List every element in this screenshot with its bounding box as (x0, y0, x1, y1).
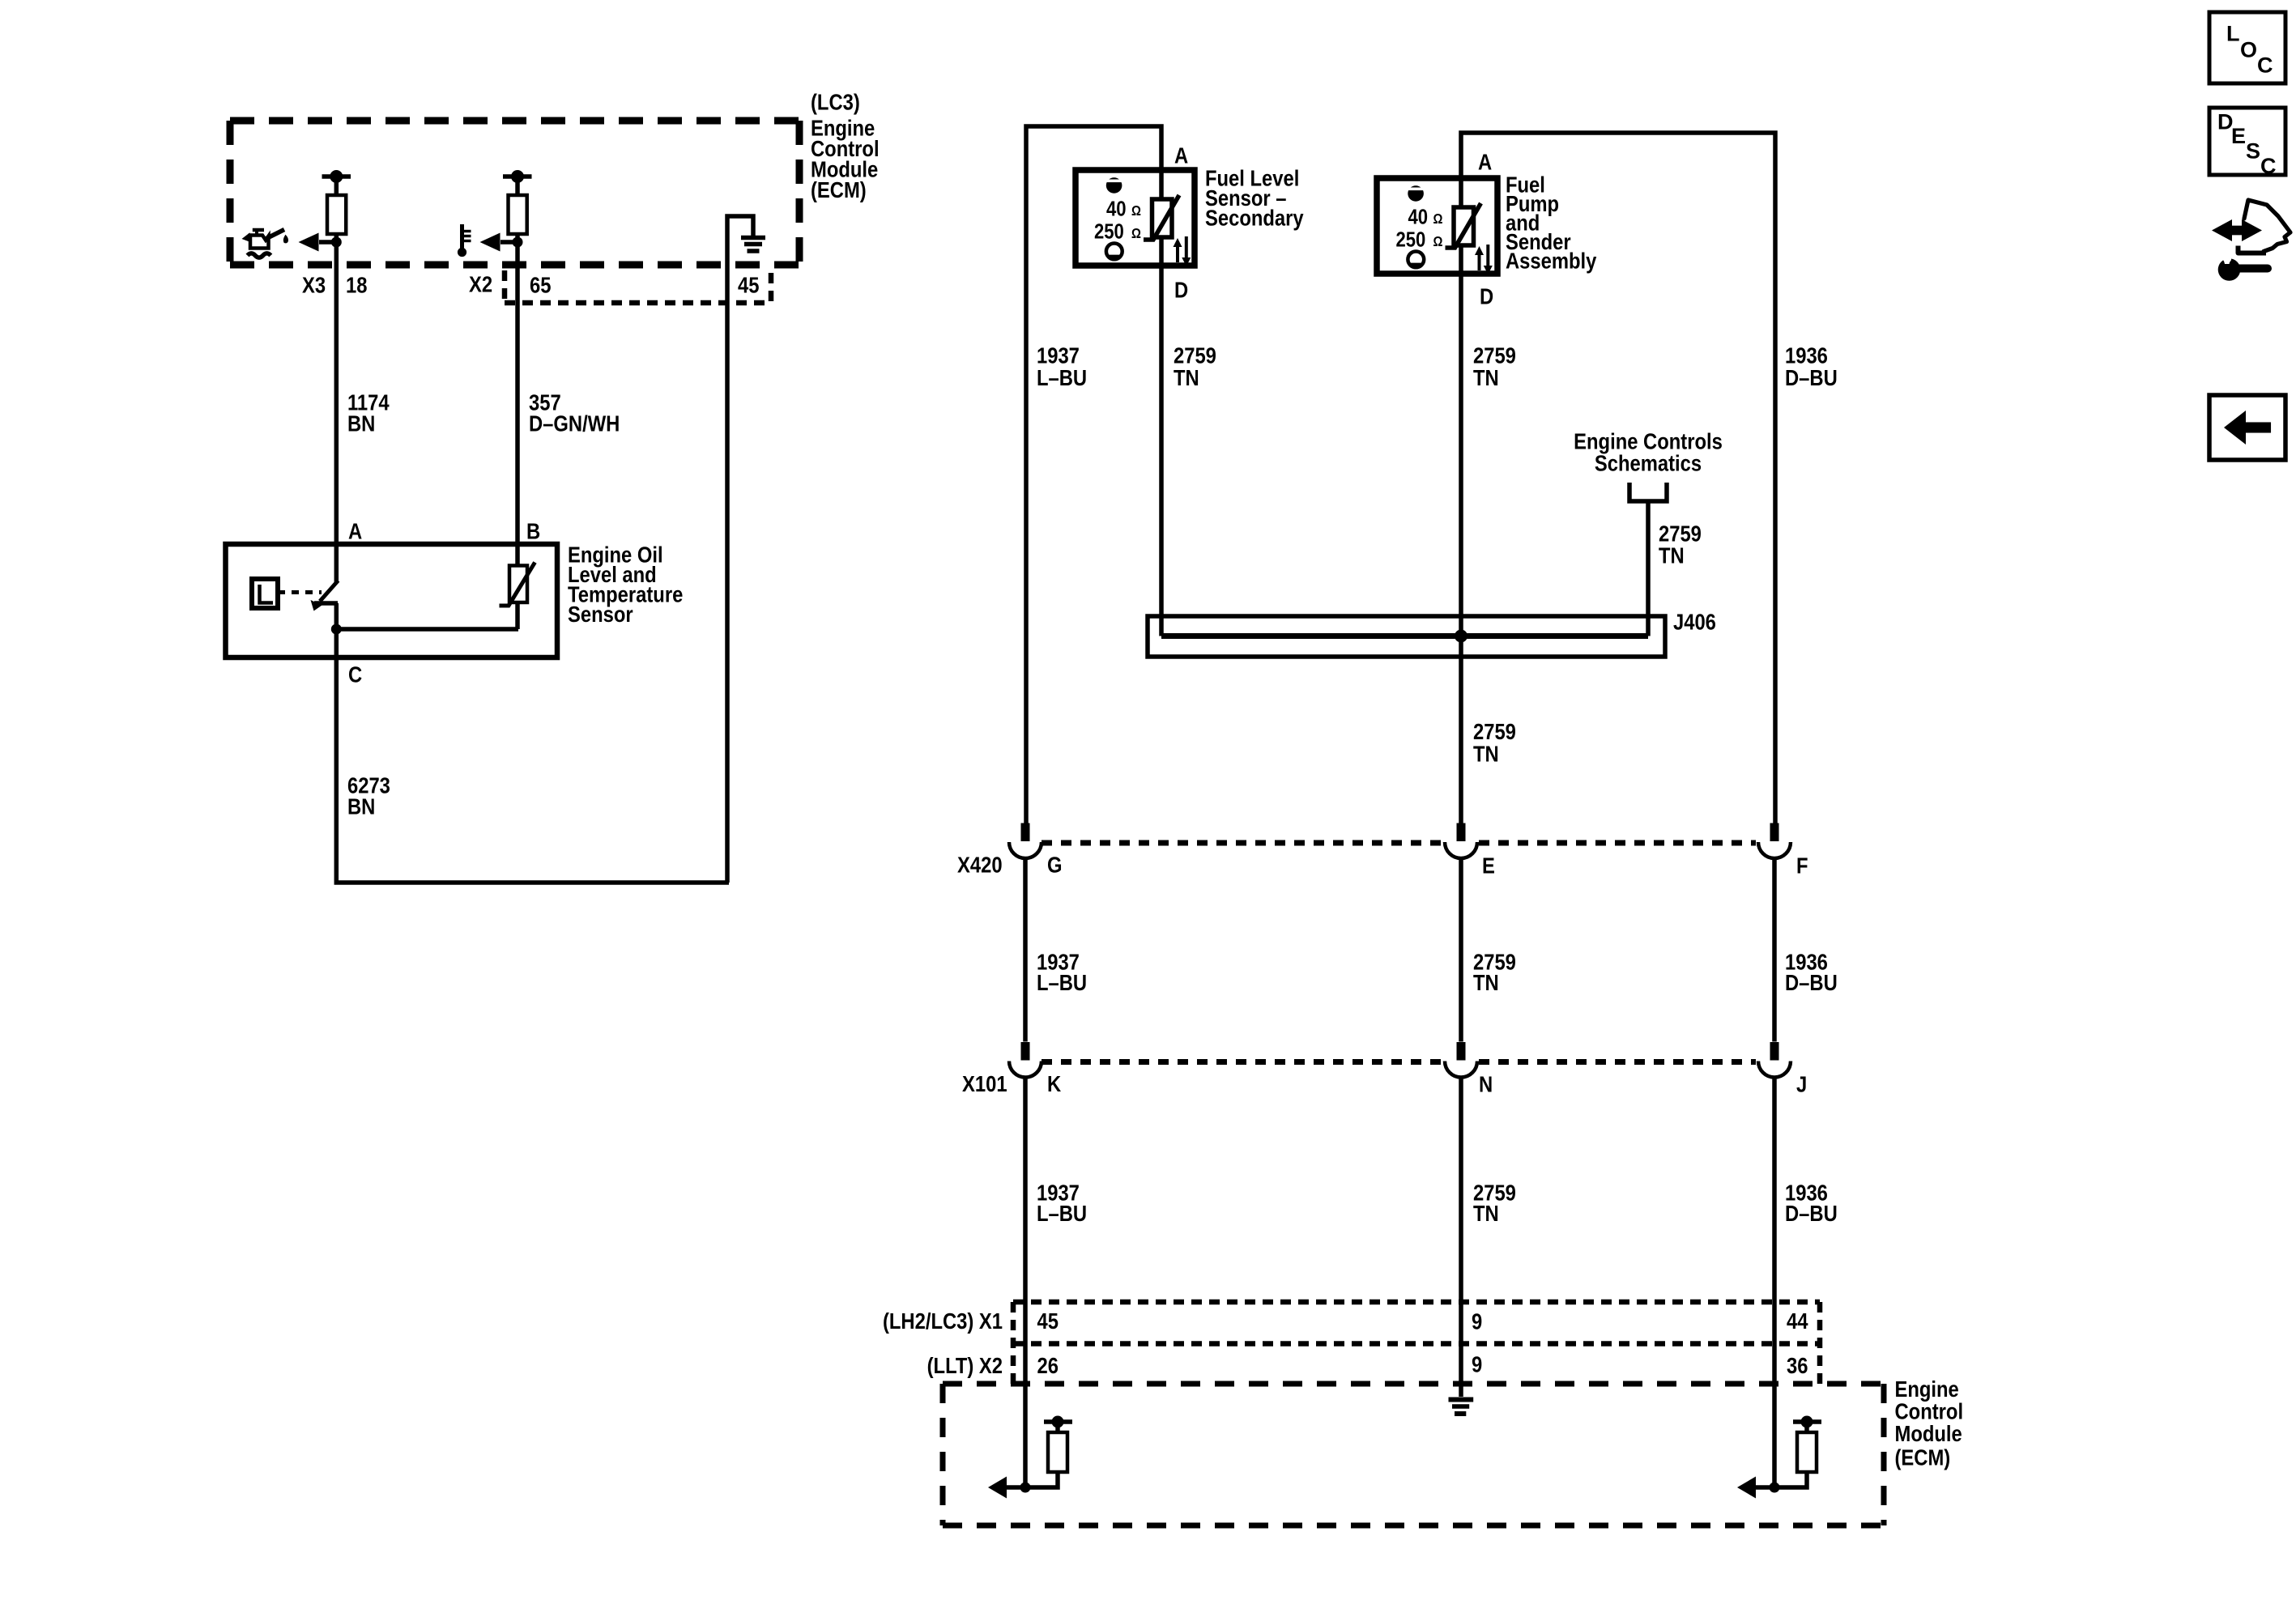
svg-text:9: 9 (1472, 1351, 1482, 1377)
svg-text:S: S (2246, 139, 2260, 164)
svg-text:TN: TN (1473, 741, 1499, 767)
svg-text:Schematics: Schematics (1595, 450, 1702, 476)
svg-text:Sensor: Sensor (568, 601, 633, 627)
svg-text:A: A (1174, 143, 1188, 168)
svg-text:N: N (1479, 1071, 1493, 1097)
svg-text:L–BU: L–BU (1037, 969, 1087, 995)
svg-text:Secondary: Secondary (1205, 205, 1304, 231)
svg-text:C: C (2260, 154, 2277, 178)
svg-text:Module: Module (1895, 1420, 1962, 1446)
svg-text:A: A (348, 518, 362, 544)
svg-text:L–BU: L–BU (1037, 1200, 1087, 1226)
svg-text:(ECM): (ECM) (811, 177, 867, 202)
svg-text:X420: X420 (957, 852, 1003, 878)
svg-text:X2: X2 (469, 271, 492, 297)
svg-text:(LLT) X2: (LLT) X2 (927, 1352, 1003, 1378)
svg-text:D–GN/WH: D–GN/WH (529, 411, 620, 436)
svg-text:B: B (526, 518, 540, 544)
svg-text:J: J (1796, 1071, 1807, 1097)
svg-text:D–BU: D–BU (1785, 364, 1838, 390)
svg-text:Ω: Ω (1433, 234, 1443, 249)
svg-text:C: C (348, 662, 362, 687)
svg-text:36: 36 (1787, 1352, 1808, 1378)
svg-text:G: G (1047, 852, 1063, 878)
svg-text:40: 40 (1106, 198, 1127, 221)
svg-text:65: 65 (530, 272, 551, 298)
svg-text:E: E (1482, 853, 1495, 879)
svg-text:K: K (1047, 1070, 1061, 1096)
svg-text:Assembly: Assembly (1506, 248, 1597, 274)
svg-text:40: 40 (1408, 206, 1429, 229)
svg-text:X3: X3 (302, 272, 326, 298)
svg-text:Ω: Ω (1131, 226, 1141, 241)
svg-text:TN: TN (1473, 364, 1499, 390)
svg-text:L: L (2226, 22, 2240, 46)
svg-text:26: 26 (1037, 1352, 1059, 1378)
svg-text:Ω: Ω (1131, 203, 1141, 219)
svg-text:250: 250 (1396, 228, 1426, 252)
svg-text:TN: TN (1659, 542, 1685, 568)
svg-text:L–BU: L–BU (1037, 364, 1087, 390)
svg-text:Ω: Ω (1433, 211, 1443, 227)
svg-text:45: 45 (1037, 1308, 1059, 1334)
svg-text:9: 9 (1472, 1308, 1482, 1334)
svg-text:A: A (1478, 149, 1492, 175)
svg-text:(ECM): (ECM) (1895, 1444, 1951, 1470)
svg-text:18: 18 (346, 272, 367, 298)
svg-text:O: O (2240, 38, 2257, 62)
svg-text:TN: TN (1473, 969, 1499, 995)
svg-text:(LC3): (LC3) (811, 89, 860, 115)
svg-text:D: D (1480, 283, 1493, 309)
svg-text:F: F (1796, 853, 1808, 879)
svg-text:44: 44 (1787, 1308, 1808, 1334)
svg-text:D: D (1174, 277, 1188, 303)
svg-text:D–BU: D–BU (1785, 1200, 1838, 1226)
svg-text:X101: X101 (962, 1070, 1007, 1096)
svg-text:TN: TN (1473, 1200, 1499, 1226)
svg-text:BN: BN (347, 411, 375, 436)
svg-text:C: C (2257, 53, 2273, 78)
svg-text:D–BU: D–BU (1785, 969, 1838, 995)
svg-text:(LH2/LC3) X1: (LH2/LC3) X1 (883, 1308, 1003, 1334)
svg-text:E: E (2231, 124, 2246, 148)
svg-text:45: 45 (738, 272, 759, 298)
svg-text:J406: J406 (1673, 609, 1716, 635)
svg-text:BN: BN (347, 793, 375, 819)
svg-text:TN: TN (1174, 364, 1199, 390)
svg-text:250: 250 (1094, 220, 1124, 244)
